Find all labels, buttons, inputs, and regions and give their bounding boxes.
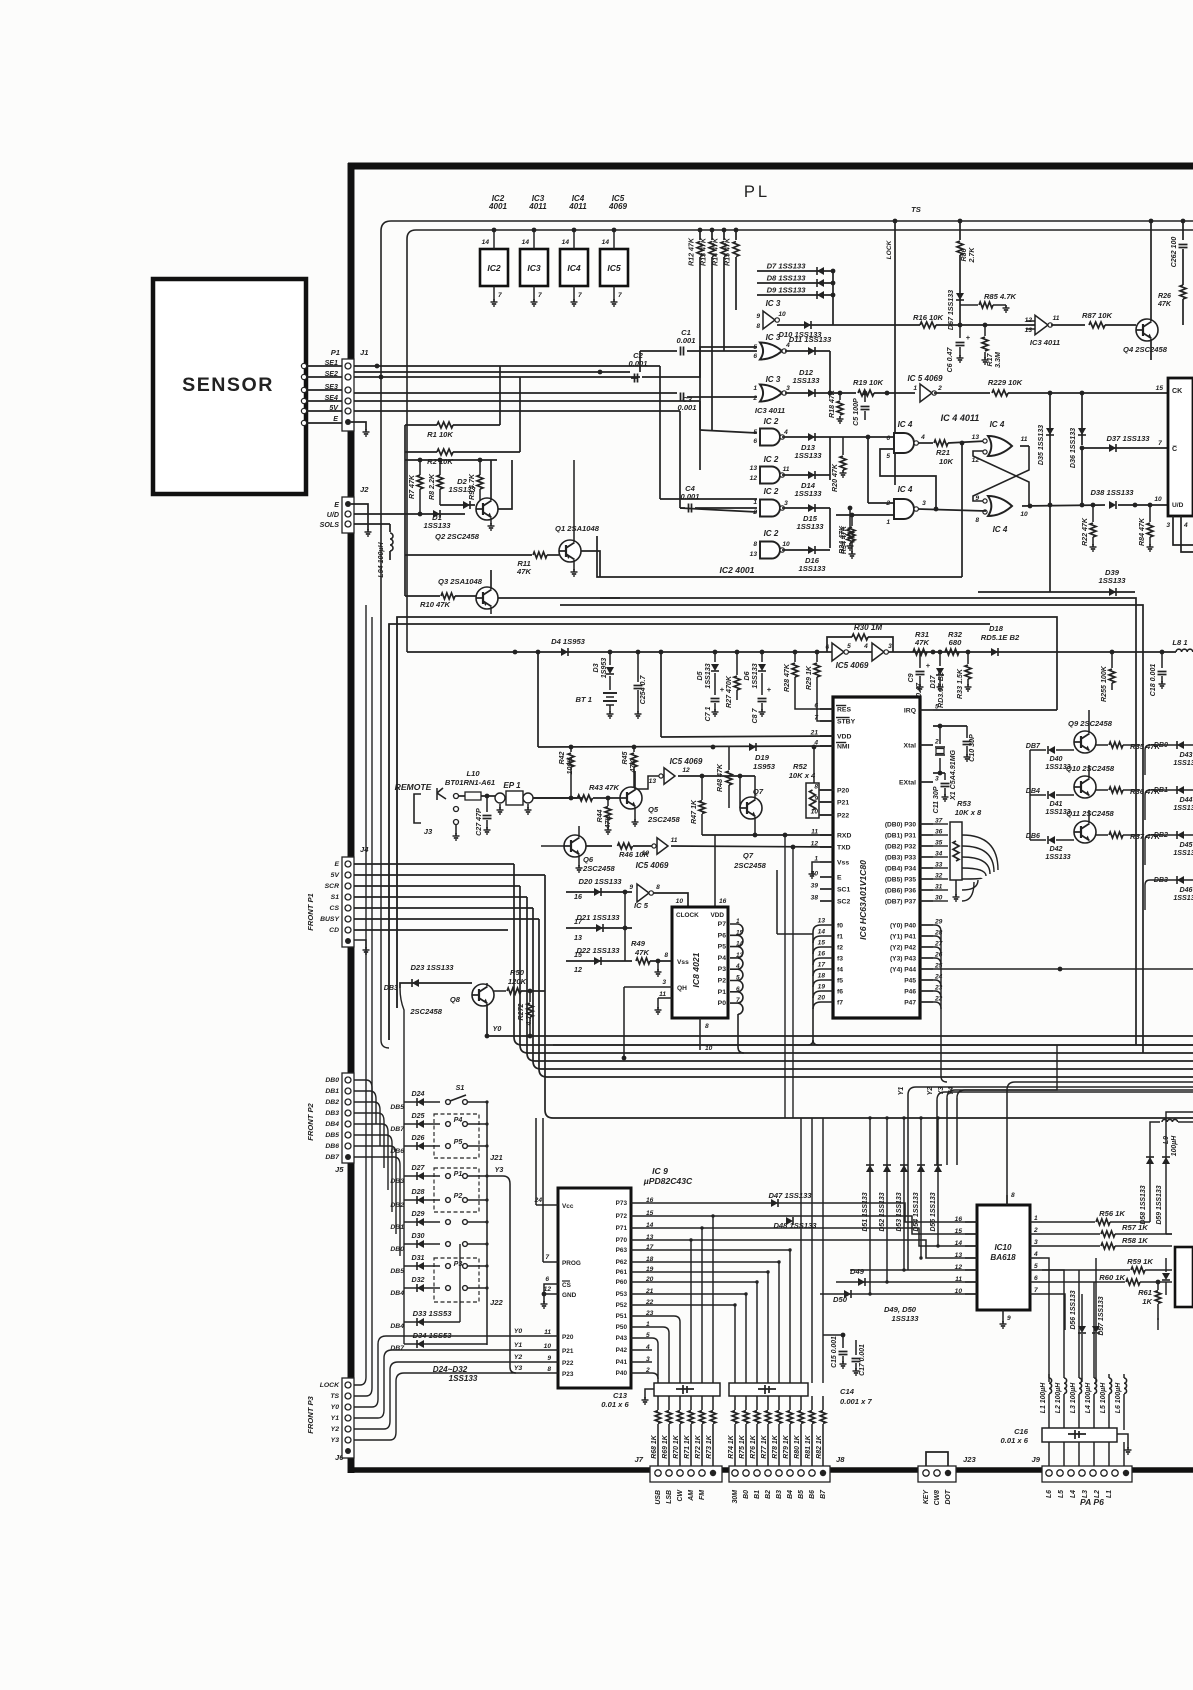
svg-text:IC 5 4069: IC 5 4069 (907, 374, 943, 383)
svg-text:Y1: Y1 (331, 1415, 340, 1422)
svg-text:P4: P4 (718, 955, 727, 962)
svg-text:1: 1 (886, 519, 890, 526)
svg-text:30M: 30M (732, 1490, 739, 1504)
svg-text:L5: L5 (1058, 1490, 1065, 1498)
svg-text:5V: 5V (331, 872, 341, 879)
svg-text:P3: P3 (454, 1260, 463, 1268)
svg-text:D45: D45 (1179, 841, 1193, 849)
wires P30-P37 rows (933, 823, 948, 825)
IC block IC2 (480, 249, 508, 286)
svg-text:TS: TS (911, 205, 921, 214)
svg-text:1S953: 1S953 (753, 762, 776, 771)
wire NAND1 feedback (880, 449, 936, 509)
ground C8 (761, 709, 763, 712)
wire IC3 pin 7 (533, 286, 535, 300)
svg-text:1S953: 1S953 (600, 658, 608, 679)
resistor R22 47K (1092, 505, 1094, 522)
svg-text:24: 24 (534, 1197, 543, 1204)
ground C13 (644, 1397, 646, 1400)
wire D36 down (1081, 448, 1083, 505)
svg-text:Q1 2SA1048: Q1 2SA1048 (555, 524, 600, 533)
resistor R15 47K (735, 230, 737, 240)
ground C16 (1117, 1434, 1128, 1448)
wire NAND2 pin1 left (836, 514, 894, 516)
svg-text:4: 4 (813, 740, 818, 747)
svg-text:LSB: LSB (666, 1490, 673, 1504)
svg-text:P72: P72 (616, 1213, 628, 1220)
svg-text:P2: P2 (454, 1192, 463, 1200)
capacitor C17 0.001 (855, 1340, 857, 1355)
svg-text:D11 1SS133: D11 1SS133 (789, 335, 832, 344)
switch P4 (446, 1122, 451, 1127)
svg-text:E: E (334, 501, 339, 509)
svg-text:IC 4: IC 4 (898, 485, 913, 494)
svg-text:4: 4 (863, 643, 868, 650)
svg-text:10K x 4: 10K x 4 (789, 771, 816, 780)
resistor R45 47K (633, 747, 635, 752)
wire IC2 pin 7 (493, 286, 495, 300)
svg-text:E: E (334, 861, 339, 868)
wire P4x bundle vertical (940, 932, 942, 1076)
svg-text:R48 47K: R48 47K (716, 763, 724, 792)
svg-text:P41: P41 (616, 1359, 628, 1366)
svg-text:L8 1: L8 1 (1172, 638, 1187, 647)
svg-text:13: 13 (750, 465, 758, 472)
svg-text:1SS133: 1SS133 (423, 521, 451, 530)
svg-text:P6: P6 (718, 932, 727, 939)
svg-text:(DB5) P35: (DB5) P35 (885, 877, 916, 884)
svg-text:IC5 4069: IC5 4069 (636, 861, 669, 870)
svg-text:3: 3 (786, 385, 790, 392)
svg-text:R69 1K: R69 1K (662, 1434, 669, 1458)
svg-text:10: 10 (642, 850, 650, 857)
svg-text:X1 C5A4.91MG: X1 C5A4.91MG (949, 749, 957, 801)
wire row P71 (644, 1228, 977, 1246)
svg-text:P61: P61 (616, 1269, 628, 1276)
svg-text:RD5.1E B2: RD5.1E B2 (981, 633, 1020, 642)
svg-text:D36 1SS133: D36 1SS133 (1069, 428, 1077, 468)
svg-text:CW: CW (677, 1490, 684, 1502)
svg-text:P22: P22 (837, 813, 849, 820)
svg-text:R85 4.7K: R85 4.7K (984, 292, 1017, 301)
svg-text:R24 47K: R24 47K (838, 525, 846, 554)
switch D30sw (446, 1242, 451, 1247)
svg-text:D59 1SS133: D59 1SS133 (1156, 1185, 1163, 1224)
svg-text:12: 12 (1025, 317, 1033, 324)
diode D12 1SS133 (808, 389, 815, 397)
svg-text:6: 6 (814, 703, 818, 710)
svg-text:7: 7 (814, 715, 818, 722)
svg-text:R272: R272 (517, 1003, 525, 1020)
IC8 left pin 3 QH (624, 986, 672, 988)
svg-text:8: 8 (1011, 1192, 1015, 1199)
svg-text:VDD: VDD (837, 734, 851, 741)
svg-text:DB1: DB1 (325, 1088, 339, 1095)
svg-text:Q3 2SA1048: Q3 2SA1048 (438, 577, 483, 586)
svg-text:5V: 5V (329, 404, 339, 412)
capacitor C262 100 (1182, 221, 1184, 240)
svg-text:1SS133: 1SS133 (449, 1374, 478, 1383)
svg-text:AM: AM (688, 1490, 695, 1502)
svg-text:4001: 4001 (488, 202, 508, 211)
wire Q cluster top rail (405, 459, 497, 461)
resistor R26 47K (1180, 285, 1186, 299)
svg-text:IC10: IC10 (994, 1243, 1012, 1252)
IC block IC4 (560, 249, 588, 286)
svg-text:14: 14 (562, 239, 570, 246)
svg-text:P62: P62 (616, 1259, 628, 1266)
svg-text:DB5: DB5 (325, 1132, 339, 1139)
svg-text:Y2: Y2 (514, 1354, 523, 1361)
svg-text:2: 2 (1033, 1227, 1038, 1234)
svg-text:D42: D42 (1049, 845, 1062, 853)
svg-text:CW8: CW8 (934, 1490, 941, 1505)
svg-text:RXD: RXD (837, 833, 851, 840)
svg-text:R19 10K: R19 10K (853, 378, 883, 387)
svg-text:Vss: Vss (677, 959, 689, 966)
svg-text:R20 47K: R20 47K (831, 463, 839, 492)
svg-text:0.01 x 6: 0.01 x 6 (601, 1400, 629, 1409)
svg-text:BT 1: BT 1 (576, 695, 592, 704)
svg-text:C̅: C̅ (1172, 445, 1177, 453)
wire bus y1077 (539, 919, 1193, 1077)
svg-text:D9 1SS133: D9 1SS133 (767, 286, 807, 295)
svg-text:f1: f1 (837, 934, 843, 941)
svg-text:SE4: SE4 (325, 394, 338, 402)
capacitor C15 0.001 (842, 1335, 844, 1348)
svg-text:5: 5 (847, 643, 851, 650)
svg-text:IC 2: IC 2 (764, 455, 779, 464)
svg-text:3: 3 (1034, 1239, 1038, 1246)
ground IC5 (613, 299, 615, 302)
svg-text:R86: R86 (960, 248, 968, 261)
svg-text:D37 1SS133: D37 1SS133 (1106, 434, 1150, 443)
resistors R74-R82 1K (734, 1396, 736, 1410)
svg-text:10: 10 (676, 898, 684, 905)
svg-text:DB3: DB3 (390, 1178, 404, 1185)
svg-text:P73: P73 (616, 1200, 628, 1207)
wire bus y1118 (545, 875, 1193, 1118)
svg-text:1SS13: 1SS13 (1173, 759, 1193, 767)
svg-text:12: 12 (682, 767, 690, 774)
svg-text:9: 9 (1007, 1315, 1011, 1322)
svg-text:Vss: Vss (837, 860, 849, 867)
svg-text:J9: J9 (1032, 1455, 1041, 1464)
wire x1007 vertical (1006, 1090, 1008, 1205)
capacitor C27 47P (485, 794, 490, 799)
wire Q1 collector net (581, 551, 600, 577)
svg-text:R10 47K: R10 47K (420, 600, 450, 609)
svg-text:11: 11 (544, 1329, 551, 1336)
svg-text:0.001: 0.001 (677, 403, 696, 412)
resistor R11 47K (405, 554, 532, 556)
svg-text:4: 4 (783, 429, 788, 436)
svg-text:12: 12 (811, 841, 819, 848)
svg-text:D32: D32 (411, 1276, 424, 1284)
svg-text:19: 19 (818, 984, 826, 991)
svg-text:10: 10 (782, 541, 790, 548)
wire Q3 net right (498, 597, 620, 599)
wire inverter1 out row (678, 775, 755, 777)
svg-text:P52: P52 (616, 1302, 628, 1309)
svg-text:R21: R21 (936, 448, 950, 457)
svg-text:Y3: Y3 (514, 1365, 523, 1372)
svg-text:17: 17 (574, 918, 583, 926)
svg-text:LOCK: LOCK (886, 239, 893, 259)
wire IC4 pin 7 (573, 286, 575, 300)
svg-text:DB7: DB7 (325, 1154, 340, 1161)
svg-text:4: 4 (920, 434, 925, 441)
svg-text:2: 2 (934, 739, 939, 746)
switch P1 (446, 1174, 451, 1179)
svg-text:1SS13: 1SS13 (1173, 894, 1193, 902)
svg-text:CK: CK (1172, 387, 1183, 395)
op IC3 4011 buffer (1026, 320, 1035, 322)
svg-text:10: 10 (1020, 511, 1028, 518)
diode D6 1SS133 vertical (761, 652, 763, 662)
svg-text:SCR: SCR (325, 883, 339, 890)
svg-text:RES: RES (837, 707, 851, 714)
svg-text:14: 14 (482, 239, 490, 246)
svg-text:J7: J7 (635, 1455, 644, 1464)
svg-text:+: + (767, 685, 772, 694)
svg-text:12: 12 (574, 966, 582, 974)
svg-text:R76 1K: R76 1K (750, 1434, 757, 1458)
svg-text:EP 1: EP 1 (503, 781, 521, 790)
svg-text:BA618: BA618 (990, 1253, 1016, 1262)
svg-text:DB6: DB6 (325, 1143, 339, 1150)
svg-text:7: 7 (545, 1254, 549, 1261)
svg-text:IC2: IC2 (487, 263, 501, 273)
svg-text:S1: S1 (456, 1084, 465, 1092)
svg-text:BT01RN1-A61: BT01RN1-A61 (445, 778, 495, 787)
svg-text:R12 47K: R12 47K (688, 237, 696, 266)
svg-text:D46: D46 (1179, 886, 1192, 894)
wire R1R2 left vertical (404, 425, 406, 452)
svg-text:0.001: 0.001 (676, 336, 695, 345)
wire rail y592 (978, 591, 1050, 593)
wire gate section box (597, 536, 962, 577)
svg-text:D44: D44 (1179, 796, 1192, 804)
wire matrix left rail (403, 983, 405, 1344)
svg-text:R26: R26 (1158, 292, 1171, 300)
svg-text:USB: USB (655, 1490, 662, 1505)
svg-text:21: 21 (810, 730, 819, 737)
svg-text:PL: PL (744, 182, 770, 201)
ground IC4 (573, 299, 575, 302)
transistor Q5 2SC2458 (620, 787, 642, 809)
ground IC6 Vss (812, 862, 820, 872)
diode D17 RD3.0E B2 vertical (939, 652, 941, 666)
resistor R27 470K (736, 652, 738, 675)
svg-text:IC5: IC5 (607, 263, 621, 273)
svg-text:QH: QH (677, 985, 687, 992)
svg-text:f7: f7 (837, 1000, 843, 1007)
svg-text:R56 1K: R56 1K (1099, 1209, 1125, 1218)
svg-text:7: 7 (618, 292, 622, 299)
svg-text:IC3 4011: IC3 4011 (1030, 338, 1060, 347)
svg-text:IC 4 4011: IC 4 4011 (941, 413, 980, 423)
svg-text:PROG: PROG (562, 1260, 581, 1267)
resistor R24 47K (849, 508, 851, 528)
svg-text:CLOCK: CLOCK (676, 912, 699, 919)
svg-text:1SS133: 1SS133 (891, 1314, 919, 1323)
svg-text:P46: P46 (904, 989, 916, 996)
svg-text:f6: f6 (837, 989, 843, 996)
wire IC2 pin 14 (493, 230, 495, 249)
wire R12 down (699, 257, 701, 470)
svg-text:47K: 47K (914, 638, 929, 647)
svg-text:D25: D25 (411, 1112, 425, 1120)
resistor R21 10K (918, 442, 933, 444)
svg-text:Y1: Y1 (514, 1342, 523, 1349)
svg-text:B3: B3 (776, 1490, 783, 1499)
svg-text:4: 4 (1183, 522, 1188, 529)
dashed box J22a (434, 1168, 479, 1212)
resistor R48 47K (728, 747, 730, 770)
svg-text:IC 3: IC 3 (766, 299, 781, 308)
wire J6 LOCK up (354, 605, 366, 1385)
svg-text:3: 3 (888, 643, 892, 650)
resistor R20 47K (842, 437, 844, 455)
svg-text:C6 0.47: C6 0.47 (946, 347, 954, 373)
ground IC2 (493, 299, 495, 302)
svg-text:9: 9 (756, 313, 760, 320)
svg-text:(DB4) P34: (DB4) P34 (885, 866, 916, 873)
svg-text:FRONT P3: FRONT P3 (306, 1395, 315, 1433)
svg-text:Y3: Y3 (331, 1437, 340, 1444)
svg-text:10K: 10K (939, 457, 953, 466)
svg-text:P20: P20 (837, 788, 849, 795)
resistor R37 47K (1096, 834, 1108, 836)
svg-text:9: 9 (629, 884, 633, 891)
svg-text:µPD82C43C: µPD82C43C (643, 1176, 693, 1186)
svg-text:CD: CD (329, 927, 339, 934)
svg-text:IC2 4001: IC2 4001 (720, 565, 755, 575)
svg-text:8: 8 (705, 1023, 709, 1030)
wire matrix collector (486, 1102, 488, 1345)
wire NMI rail vertical (536, 650, 541, 655)
svg-text:B7: B7 (820, 1489, 827, 1499)
ground R17 (984, 357, 986, 360)
svg-text:B5: B5 (798, 1490, 805, 1499)
svg-text:D31: D31 (411, 1254, 424, 1262)
svg-text:6: 6 (825, 644, 829, 651)
wire main rail y652 (407, 651, 1176, 653)
svg-text:P71: P71 (616, 1225, 628, 1232)
IC6 right pins top (920, 709, 933, 711)
svg-text:P45: P45 (904, 978, 916, 985)
svg-text:DOT: DOT (945, 1489, 952, 1504)
wire IC4 out row (1022, 505, 1105, 506)
svg-text:C13: C13 (613, 1391, 628, 1400)
switch P2 (446, 1198, 451, 1203)
svg-text:DB2: DB2 (325, 1099, 339, 1106)
svg-text:10: 10 (778, 311, 786, 318)
svg-text:6: 6 (545, 1276, 549, 1283)
svg-text:2: 2 (937, 385, 942, 392)
resistor R1 10K (405, 424, 437, 426)
wire f bundle vertical (812, 932, 814, 1040)
svg-text:DB4: DB4 (390, 1323, 404, 1330)
wire IC3 pin 14 (533, 230, 535, 249)
svg-text:D18: D18 (989, 624, 1004, 633)
svg-text:17: 17 (818, 962, 826, 969)
IC9 right pins (631, 1202, 644, 1204)
wires C14 columns up (734, 1305, 736, 1383)
svg-text:3: 3 (784, 500, 788, 507)
svg-text:LOCK: LOCK (320, 1382, 340, 1389)
svg-text:REMOTE: REMOTE (395, 782, 432, 792)
svg-text:D27: D27 (411, 1164, 425, 1172)
svg-text:P3: P3 (718, 966, 727, 973)
IC9 pin 7 PROG (543, 1261, 558, 1263)
svg-text:16: 16 (955, 1216, 963, 1223)
wire bus y1061 (527, 897, 1193, 1061)
resistor R86 2.7K (959, 221, 961, 240)
svg-text:R30 1M: R30 1M (854, 623, 883, 632)
switch P5 (446, 1144, 451, 1149)
svg-text:DB6: DB6 (390, 1148, 404, 1155)
resistor R12 47K (699, 230, 701, 240)
svg-text:C262 100: C262 100 (1170, 237, 1178, 268)
diode D9 1SS133 (757, 294, 833, 296)
svg-text:P20: P20 (562, 1334, 574, 1341)
svg-text:B4: B4 (787, 1490, 794, 1499)
IC block IC3 (520, 249, 548, 286)
diode D19 1S953 (749, 743, 756, 751)
svg-text:D6: D6 (743, 671, 751, 680)
svg-text:SENSOR: SENSOR (182, 374, 274, 396)
svg-text:C27 47P: C27 47P (475, 808, 483, 836)
resistor R255 100K (1111, 652, 1113, 668)
svg-text:1SS133: 1SS133 (704, 663, 712, 688)
resistor R10 47K (405, 595, 440, 597)
svg-text:D17: D17 (929, 674, 937, 688)
svg-text:DB4: DB4 (390, 1290, 404, 1297)
svg-text:2SC2458: 2SC2458 (733, 861, 766, 870)
resistor R36 47K (1096, 789, 1108, 791)
svg-text:1SS133: 1SS133 (798, 564, 826, 573)
wire D51-D55 row landings (868, 1292, 871, 1295)
wire C15 net (823, 1334, 843, 1336)
wire NMI rail y747 (538, 746, 834, 747)
svg-text:3: 3 (662, 979, 666, 986)
svg-text:D21 1SS133: D21 1SS133 (576, 913, 620, 922)
svg-text:P40: P40 (616, 1370, 628, 1377)
svg-text:13: 13 (750, 551, 758, 558)
ground R20 (842, 470, 844, 473)
wire P44 row right (933, 968, 1193, 970)
diode D11 1SS133 (785, 350, 830, 352)
svg-text:D5: D5 (696, 670, 704, 680)
IC8 fan scallops (730, 924, 743, 935)
svg-text:D33 1SS53: D33 1SS53 (413, 1309, 453, 1318)
svg-text:6: 6 (886, 435, 890, 442)
resistor R13 47K (711, 230, 713, 240)
svg-text:E: E (333, 415, 338, 423)
svg-text:12: 12 (955, 1264, 963, 1271)
svg-text:P43: P43 (616, 1335, 628, 1342)
svg-text:1SS133: 1SS133 (794, 451, 822, 460)
capacitor C5 100P (864, 393, 866, 402)
svg-text:10: 10 (955, 1288, 963, 1295)
svg-text:P53: P53 (616, 1291, 628, 1298)
svg-text:D52 1SS133: D52 1SS133 (879, 1192, 886, 1231)
transistor Q8 2SC2458 (472, 984, 494, 1006)
svg-text:11: 11 (659, 991, 666, 998)
svg-text:IC4: IC4 (567, 263, 581, 273)
